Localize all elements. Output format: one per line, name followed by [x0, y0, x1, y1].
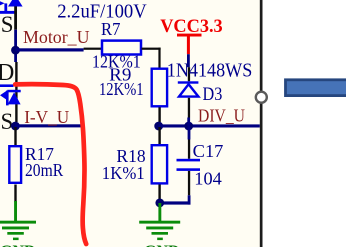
pin R17 bottom — [14, 185, 16, 203]
blue UI bar (right) — [286, 80, 346, 96]
pin D (bottom MOSFET drain) — [15, 62, 17, 122]
resistor R9 with pins — [152, 69, 167, 123]
svg-text:1N4148WS: 1N4148WS — [167, 59, 253, 81]
pin D3 anode — [188, 98, 190, 118]
pin S (top MOSFET source) — [14, 6, 17, 29]
svg-text:D: D — [0, 60, 14, 86]
svg-text:104: 104 — [194, 169, 222, 189]
sheet edge line — [260, 0, 263, 247]
svg-text:GND: GND — [0, 243, 36, 247]
wire VCC to D3 — [187, 54, 190, 67]
node I-V_U junction — [11, 122, 20, 131]
ground GND right — [139, 203, 180, 247]
resistor R18 with pins — [152, 127, 167, 200]
svg-text:GND: GND — [144, 243, 180, 247]
svg-text:I-V_U: I-V_U — [24, 107, 69, 127]
wire C17 bottom L — [160, 195, 191, 204]
resistor R7 with pins — [84, 41, 161, 68]
svg-text:DIV_U: DIV_U — [198, 106, 245, 126]
port circle on sheet edge — [256, 92, 267, 103]
svg-text:1K%1: 1K%1 — [102, 163, 145, 183]
ground GND left — [0, 201, 36, 247]
node DIV_U junction right — [184, 122, 193, 131]
svg-text:S: S — [1, 12, 14, 37]
area right of sheet edge — [262, 0, 346, 247]
transistor Q-top source arrow (cut at top edge) — [0, 0, 23, 14]
wire Motor_U vertical — [14, 30, 17, 62]
pin R17 top — [14, 127, 16, 145]
node DIV_U junction left — [154, 122, 163, 131]
pin D3 cathode — [188, 67, 190, 81]
svg-text:Motor_U: Motor_U — [23, 27, 90, 47]
red annotation stroke — [15, 84, 86, 244]
capacitor C17 — [177, 126, 201, 195]
svg-text:12K%1: 12K%1 — [99, 79, 144, 99]
svg-text:20mR: 20mR — [25, 160, 63, 180]
svg-text:R7: R7 — [101, 19, 120, 39]
svg-text:D3: D3 — [203, 84, 223, 105]
wire D3 to DIV_U — [187, 118, 190, 127]
resistor R17 — [9, 146, 21, 183]
svg-text:C17: C17 — [193, 141, 224, 161]
transistor Q-bottom partial symbol with body diode — [0, 84, 21, 105]
node ground junction — [155, 199, 164, 208]
node Motor_U junction — [11, 46, 20, 55]
wire DIV_U — [159, 124, 260, 127]
wire Motor_U horizontal — [16, 48, 84, 51]
diode D3 — [178, 81, 199, 96]
power port VCC3.3 — [160, 16, 223, 54]
wire I-V_U — [15, 124, 83, 127]
svg-text:S: S — [1, 109, 14, 134]
